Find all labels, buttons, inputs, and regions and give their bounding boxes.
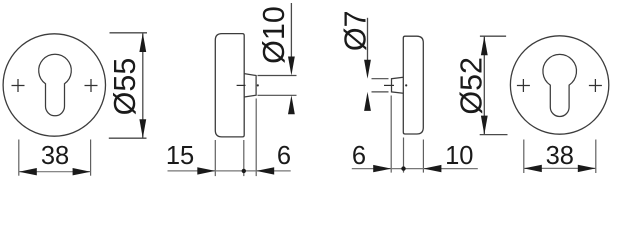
svg-text:Ø10: Ø10: [257, 6, 291, 64]
rosette front view left (outer circle): [3, 34, 105, 136]
screw mark right-rosette right (+): [589, 79, 602, 92]
extension line 15/6 shared: [243, 140, 245, 176]
dimension line 38 right: [524, 167, 596, 169]
collar O10 (protrudes right): [244, 74, 256, 97]
dimension line 6-10: [352, 168, 478, 170]
arrow left 38R: [524, 165, 542, 172]
arrow up O10 (below): [288, 95, 295, 114]
screw mark left (+): [12, 79, 25, 92]
arrow up O7 (below): [364, 92, 371, 111]
extension line 15 left: [214, 140, 216, 176]
extension line O10 bottom: [258, 94, 297, 96]
arrow down O52: [481, 116, 488, 135]
keyhole (euro profile) left: [39, 54, 72, 116]
dimension line 38 left: [19, 171, 91, 173]
dot 6/10: [401, 166, 405, 170]
centerline dash view3: [384, 84, 394, 86]
arrow up O52: [481, 36, 488, 55]
extension line bottom (O55): [109, 137, 147, 139]
arrow down O55: [139, 119, 146, 138]
dimension line O52: [483, 36, 485, 134]
arrow right 38L: [73, 168, 91, 175]
svg-text:15: 15: [166, 142, 194, 170]
extension line 10 right: [422, 140, 424, 173]
screw mark right-rosette left (+): [517, 79, 530, 92]
side view slab right (10mm rosette profile): [403, 36, 423, 134]
extension line 6 right (collar face): [255, 99, 257, 177]
extension line 6 left (collar face v3): [390, 96, 392, 173]
extension line 38-right a: [523, 140, 525, 174]
arrow right 15: [197, 167, 215, 174]
svg-text:6: 6: [352, 142, 366, 170]
svg-text:10: 10: [445, 142, 473, 170]
extension line top (O55): [110, 32, 148, 34]
extension line 38-left b: [90, 140, 92, 176]
dimension line O55: [142, 33, 144, 138]
extension line top (O52): [480, 35, 506, 37]
svg-text:38: 38: [546, 142, 574, 170]
arrow up O55: [139, 33, 146, 52]
side view slab (15mm rosette profile): [215, 34, 244, 137]
svg-text:Ø55: Ø55: [108, 58, 142, 116]
svg-text:Ø52: Ø52: [454, 57, 488, 115]
keyhole (euro profile) right: [543, 54, 577, 116]
extension line 6/10 shared: [403, 138, 405, 173]
arrow left 6: [256, 167, 274, 174]
arrow down O10: [288, 57, 295, 76]
extension line 38-left a: [18, 140, 20, 176]
dimension line O10: [290, 3, 292, 58]
dot 15/6: [242, 169, 246, 173]
svg-text:Ø7: Ø7: [338, 10, 372, 51]
screw mark right (+): [85, 79, 98, 92]
extension line bottom (O52): [480, 134, 508, 136]
arrow right 38R: [578, 165, 596, 172]
arrow left 38L: [19, 168, 37, 175]
extension line O7 bottom: [372, 91, 389, 93]
arrow right 6 v3: [373, 165, 391, 172]
extension line 38-right b: [595, 140, 597, 174]
dimension line O7: [367, 18, 369, 61]
arrow down O7: [364, 60, 371, 79]
extension line O10 top: [258, 75, 297, 77]
rosette front view right (outer circle): [510, 36, 608, 134]
centerline dash view2: [237, 84, 246, 86]
arrow left 10: [423, 165, 441, 172]
dimension line 15-6: [168, 170, 291, 172]
svg-text:6: 6: [277, 142, 291, 170]
centerline dot view3: [405, 84, 407, 86]
extension line O7 top: [372, 78, 389, 80]
centerline dot view2: [257, 84, 259, 86]
collar O7 (protrudes left): [392, 77, 404, 93]
svg-text:38: 38: [41, 142, 69, 170]
